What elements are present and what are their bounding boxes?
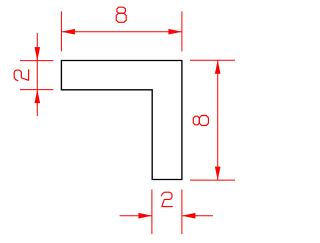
- bottom dim 2: left extension line: [151, 190, 153, 235]
- left dim 2: upper arrowhead (points down): [35, 47, 41, 61]
- bottom dim 2: right tail of dimension line: [182, 215, 213, 217]
- top dim 8: left arrowhead: [61, 29, 75, 35]
- bottom dim 2: right arrowhead (points left): [182, 213, 196, 219]
- left dim 2: dimension line: [36, 33, 38, 116]
- top dim 8: dimension line: [61, 31, 181, 33]
- top dim text "8": [116, 7, 126, 22]
- right dim 8: upper extension line: [190, 59, 235, 61]
- left dim text "2" (rotated 90 CCW): [14, 70, 28, 81]
- right dim 8: upper arrowhead (points up): [215, 60, 221, 74]
- top dim 8: left extension line: [60, 11, 62, 51]
- bottom dim 2: left tail of dimension line: [120, 215, 152, 217]
- right dim text "8" (rotated 90 CCW): [193, 116, 208, 126]
- L-profile outline: [61, 61, 181, 180]
- right dim 8: lower extension line: [190, 179, 235, 181]
- left dim 2: lower arrowhead (points up): [35, 90, 41, 104]
- bottom dim 2: left arrowhead (points right): [138, 213, 152, 219]
- top dim 8: right extension line: [181, 11, 183, 51]
- left dim 2: upper extension line: [20, 60, 53, 62]
- left dim 2: lower extension line: [20, 89, 53, 91]
- right dim 8: dimension line: [217, 60, 219, 180]
- top dim 8: right arrowhead: [168, 29, 182, 35]
- bottom dim text "2": [162, 192, 173, 206]
- right dim 8: lower arrowhead (points down): [215, 167, 221, 181]
- bottom dim 2: right extension line: [181, 190, 183, 235]
